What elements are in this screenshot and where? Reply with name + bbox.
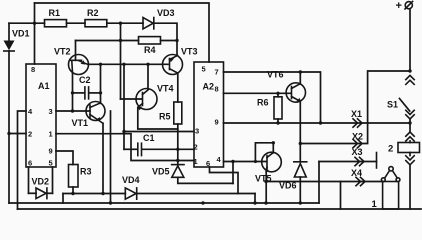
svg-text:VD4: VD4 xyxy=(122,175,140,185)
svg-text:R2: R2 xyxy=(87,8,99,18)
svg-text:5: 5 xyxy=(202,65,206,74)
svg-text:R3: R3 xyxy=(80,167,92,177)
svg-text:X3: X3 xyxy=(352,147,363,157)
svg-text:VD5: VD5 xyxy=(152,167,170,177)
svg-text:VD1: VD1 xyxy=(12,29,30,39)
svg-text:1: 1 xyxy=(372,199,378,210)
svg-text:C1: C1 xyxy=(143,133,155,143)
svg-text:8: 8 xyxy=(215,85,219,94)
svg-text:2: 2 xyxy=(388,144,393,155)
svg-text:1: 1 xyxy=(49,130,53,139)
svg-text:1: 1 xyxy=(194,157,198,166)
svg-text:+: + xyxy=(396,0,402,12)
svg-text:8: 8 xyxy=(31,65,35,74)
svg-text:VD6: VD6 xyxy=(279,181,297,191)
svg-text:R1: R1 xyxy=(49,8,61,18)
svg-text:R6: R6 xyxy=(257,98,269,108)
svg-text:VT6: VT6 xyxy=(267,70,284,80)
svg-text:C2: C2 xyxy=(79,75,91,85)
svg-text:VT2: VT2 xyxy=(54,47,71,57)
svg-text:9: 9 xyxy=(49,147,53,156)
svg-text:9: 9 xyxy=(215,118,219,127)
svg-text:7: 7 xyxy=(215,68,219,77)
svg-text:VT5: VT5 xyxy=(255,174,272,184)
svg-text:S1: S1 xyxy=(387,100,398,110)
svg-text:VT3: VT3 xyxy=(181,47,198,57)
svg-text:3: 3 xyxy=(195,127,199,136)
svg-text:X1: X1 xyxy=(351,109,362,119)
svg-text:3: 3 xyxy=(49,107,53,116)
svg-text:X2: X2 xyxy=(352,132,363,142)
svg-text:R4: R4 xyxy=(144,45,156,55)
svg-text:X4: X4 xyxy=(351,168,362,178)
svg-text:A1: A1 xyxy=(38,81,50,91)
svg-text:VD3: VD3 xyxy=(157,8,175,18)
svg-text:VT4: VT4 xyxy=(157,84,174,94)
svg-text:2: 2 xyxy=(28,130,32,139)
svg-text:A2: A2 xyxy=(203,82,215,92)
svg-text:VT1: VT1 xyxy=(72,118,89,128)
svg-text:R5: R5 xyxy=(159,112,171,122)
svg-text:VD2: VD2 xyxy=(32,177,50,187)
svg-text:2: 2 xyxy=(194,143,198,152)
